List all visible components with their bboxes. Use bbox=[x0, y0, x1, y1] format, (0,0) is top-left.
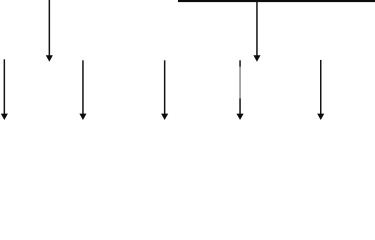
horizontal connector line (top right) bbox=[178, 0, 375, 2]
arrow B2 (bottom row, second) bbox=[79, 60, 86, 120]
arrow B1 (bottom row, leftmost) bbox=[1, 59, 8, 120]
arrow T2 (from horizontal line, long down arrow) bbox=[253, 2, 260, 62]
arrow B4 (bottom row, fourth, greyish shaft) bbox=[237, 60, 244, 120]
arrow B3 (bottom row, middle) bbox=[161, 60, 168, 120]
arrow T1 (top left, long down arrow) bbox=[46, 0, 53, 62]
arrow B5 (bottom row, rightmost) bbox=[317, 60, 324, 120]
